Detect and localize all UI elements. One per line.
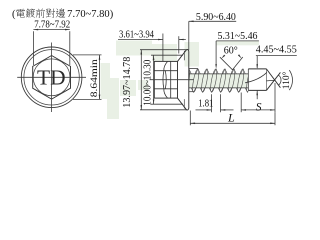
svg-text:3.61~3.94: 3.61~3.94 <box>119 29 155 40</box>
svg-text:10.00~10.30: 10.00~10.30 <box>142 60 153 106</box>
svg-text:(: ( <box>12 9 16 20</box>
svg-text:110°: 110° <box>281 71 292 89</box>
svg-text:13.97~14.78: 13.97~14.78 <box>122 57 133 108</box>
svg-text:S: S <box>256 102 262 114</box>
svg-text:TD: TD <box>37 66 66 90</box>
svg-text:5.90~6.40: 5.90~6.40 <box>196 12 236 23</box>
svg-text:8.64min: 8.64min <box>90 59 100 97</box>
svg-text:1.81: 1.81 <box>198 99 213 110</box>
svg-text:): ) <box>110 9 114 20</box>
svg-text:7.78~7.92: 7.78~7.92 <box>34 20 70 31</box>
svg-text:7.70~7.80: 7.70~7.80 <box>67 9 110 20</box>
svg-text:60°: 60° <box>224 45 238 56</box>
svg-text:5.31~5.46: 5.31~5.46 <box>218 31 258 42</box>
svg-text:L: L <box>227 111 235 125</box>
svg-text:4.45~4.55: 4.45~4.55 <box>256 44 297 55</box>
